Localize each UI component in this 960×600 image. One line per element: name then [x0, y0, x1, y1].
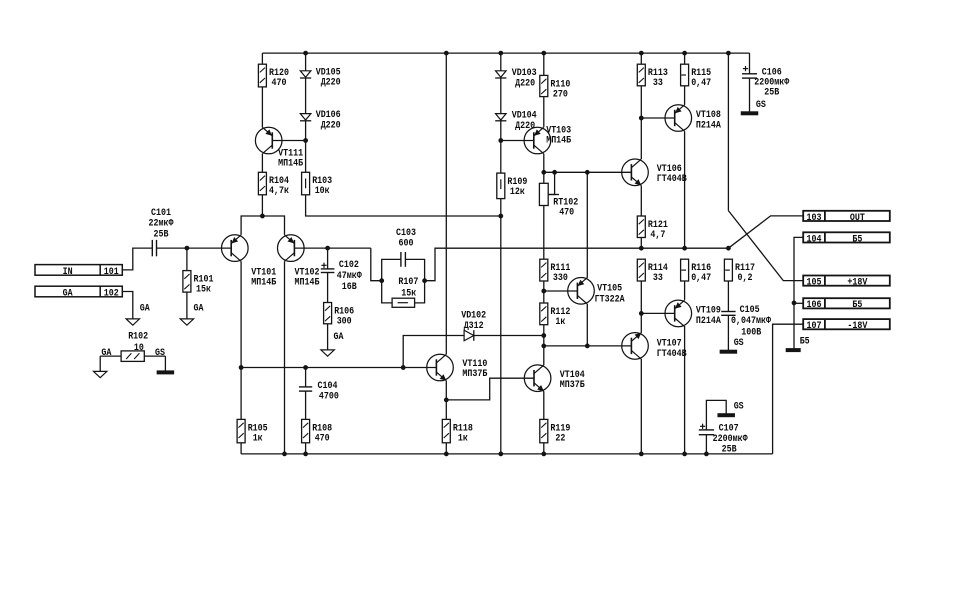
- resistor R105: [237, 419, 268, 444]
- node B: VD104 / VT103 base / R109 junction: [499, 139, 503, 143]
- wire: VT108 collector to output rail: [684, 131, 686, 248]
- terminal 102 GA: [35, 286, 122, 299]
- svg-text:470: 470: [272, 78, 287, 89]
- junction: R114 / VT109 base / VT107 emitter: [639, 312, 643, 316]
- wire: RT102 wiper tap: [549, 172, 559, 194]
- wire: VT101 collector to VT110 base node: [240, 261, 242, 367]
- junction: R109 line at rail: [499, 452, 503, 456]
- wire: terminal 104/106 net: [794, 237, 803, 348]
- junction: C104 top: [304, 366, 308, 370]
- junction: R110 at top rail: [542, 51, 546, 55]
- svg-text:МП14Б: МП14Б: [295, 278, 320, 289]
- resistor R109: [497, 173, 528, 199]
- wire: VT107 emitter riser: [640, 313, 642, 332]
- resistor R116: [681, 259, 712, 284]
- wire: R105 bottom to rail: [240, 443, 242, 454]
- wire: VT106 emitter to R121: [640, 186, 642, 216]
- svg-text:C107: C107: [719, 423, 739, 434]
- wire: R119 bottom to rail: [543, 443, 545, 454]
- svg-text:0,2: 0,2: [738, 273, 753, 284]
- junction: +18V bus at top rail: [727, 51, 731, 55]
- terminal 103 OUT: [803, 211, 890, 224]
- wire: VT111 base to diode node: [272, 140, 305, 142]
- junction: VT105 emitter at bias bus: [585, 170, 589, 174]
- svg-text:22: 22: [555, 433, 565, 444]
- wire: VT109 base wire: [641, 312, 674, 314]
- transistor VT108: [665, 105, 721, 132]
- svg-text:МП14Б: МП14Б: [278, 159, 303, 170]
- wire: VT105 collector down: [586, 304, 588, 346]
- resistor R119: [540, 419, 571, 444]
- svg-text:VT109: VT109: [696, 306, 721, 317]
- junction: C103/R107 right node: [423, 279, 427, 283]
- diode VD105: [300, 68, 341, 89]
- junction: R118 at rail: [444, 452, 448, 456]
- svg-text:IN: IN: [63, 267, 73, 278]
- svg-text:ГТ322А: ГТ322А: [595, 295, 625, 306]
- svg-text:Д220: Д220: [321, 78, 341, 89]
- wire: VT103 collector down: [543, 154, 545, 173]
- junction: VT109 collector at rail: [683, 452, 687, 456]
- svg-text:GA: GA: [140, 303, 150, 314]
- junction: VD102 branch at VT110 base wire: [401, 366, 405, 370]
- junction: R104 / emitters: [261, 214, 265, 218]
- wire: VT104 bottom to R119: [543, 391, 545, 419]
- wire: feedback node down to C103/R107 left: [371, 248, 382, 281]
- resistor R115: [681, 64, 712, 89]
- wire: R101 bottom to ground: [186, 292, 188, 319]
- ground GA (R102 left): [94, 371, 107, 377]
- svg-text:103: 103: [807, 213, 822, 224]
- wire: VD102 cathode to R112 node: [474, 335, 544, 337]
- svg-text:0,047мкФ: 0,047мкФ: [731, 316, 771, 327]
- svg-text:Д220: Д220: [321, 120, 341, 131]
- wire: VT102 base to feedback node: [294, 247, 370, 249]
- wire: diff-pair emitter bus: [241, 216, 284, 235]
- wire: VT101 collector node bus to VT110 base: [241, 367, 436, 369]
- svg-text:25В: 25В: [722, 444, 737, 455]
- wire: GA102 terminal to ground: [122, 292, 133, 319]
- capacitor C106: [742, 66, 789, 111]
- junction: VT103 collector / RT102: [542, 170, 546, 174]
- svg-text:C101: C101: [151, 208, 171, 219]
- wire: VD105 chain from rail: [305, 53, 307, 140]
- wire: R121 bottom to output rail: [640, 238, 642, 249]
- wire: R107 right leg: [415, 281, 425, 303]
- wire: C101 to VT101 base: [157, 247, 232, 249]
- wire: R107 left leg: [382, 281, 392, 303]
- svg-text:102: 102: [104, 288, 119, 299]
- junction: bus at top rail: [444, 51, 448, 55]
- wire: VT107 collector to bottom rail: [640, 359, 642, 454]
- junction: R119 at rail: [542, 452, 546, 456]
- wire: VD103 chain from rail: [500, 53, 502, 140]
- capacitor C102: [321, 260, 362, 293]
- svg-text:600: 600: [399, 238, 414, 249]
- svg-text:270: 270: [553, 89, 568, 100]
- svg-text:25В: 25В: [154, 230, 169, 241]
- transistor VT102: [278, 235, 320, 289]
- wire: input coupling run: [122, 248, 152, 270]
- svg-text:4,7: 4,7: [650, 230, 665, 241]
- resistor R103: [302, 172, 333, 197]
- wire: C106 bottom to ground: [749, 78, 751, 112]
- svg-text:Б5: Б5: [852, 234, 862, 245]
- wire: RT102 bottom to R111: [543, 206, 545, 260]
- svg-text:1к: 1к: [253, 433, 263, 444]
- svg-text:VD102: VD102: [461, 310, 486, 321]
- resistor R111: [540, 259, 571, 284]
- transistor VT106: [622, 159, 687, 186]
- terminal 101 IN: [35, 265, 122, 278]
- capacitor C103: [396, 228, 416, 267]
- terminal 106 Б5: [803, 298, 890, 311]
- svg-text:Д220: Д220: [515, 121, 535, 132]
- svg-text:МП37Б: МП37Б: [462, 369, 487, 380]
- terminal 105 +18V: [803, 276, 890, 289]
- resistor R112: [540, 303, 571, 328]
- svg-text:GA: GA: [194, 303, 204, 314]
- wire: R120 top to rail: [261, 53, 263, 64]
- capacitor C101: [149, 208, 174, 256]
- wire: R112 top: [543, 291, 545, 303]
- wire: +18V diagonal to terminal 105: [728, 211, 803, 281]
- svg-text:ГТ404В: ГТ404В: [657, 174, 687, 185]
- wire: C103 right leg: [405, 259, 424, 280]
- resistor R108: [302, 419, 333, 444]
- svg-text:C105: C105: [740, 305, 760, 316]
- svg-text:C104: C104: [318, 381, 338, 392]
- ground GS (R102 right): [157, 371, 174, 374]
- svg-text:ГТ404В: ГТ404В: [657, 349, 687, 360]
- resistor R101: [183, 271, 214, 296]
- wire: C107 top to ground bracket: [706, 400, 726, 430]
- transistor VT107: [622, 333, 687, 360]
- svg-text:R107: R107: [398, 277, 418, 288]
- svg-text:GA: GA: [334, 332, 344, 343]
- node A: VT111 base / VD106 / R103 junction: [304, 139, 308, 143]
- junction: R115 at top rail: [683, 51, 687, 55]
- svg-text:C102: C102: [339, 260, 359, 271]
- wire: VD102 anode branch: [403, 336, 464, 368]
- diode VD102: [461, 310, 486, 340]
- svg-text:105: 105: [807, 278, 822, 289]
- junction: VD103 at top rail: [499, 51, 503, 55]
- junction: VT104 collector node: [542, 344, 546, 348]
- svg-text:470: 470: [315, 433, 330, 444]
- svg-text:C103: C103: [396, 228, 416, 239]
- capacitor C105: [721, 305, 771, 349]
- ground GA (R106): [321, 332, 344, 356]
- svg-text:15к: 15к: [401, 288, 416, 299]
- svg-text:GS: GS: [756, 100, 766, 111]
- svg-text:1к: 1к: [555, 317, 565, 328]
- resistor R106: [324, 303, 355, 328]
- wire: terminal 106 stub: [794, 302, 803, 304]
- svg-text:101: 101: [104, 267, 119, 278]
- wire: terminal 107 to bottom rail: [773, 324, 804, 454]
- ground GS (C106): [741, 112, 758, 115]
- junction: VD105 at top rail: [304, 51, 308, 55]
- transistor VT103: [524, 126, 571, 154]
- svg-text:OUT: OUT: [850, 213, 865, 224]
- svg-text:1к: 1к: [458, 433, 468, 444]
- transistor VT111: [255, 127, 303, 169]
- svg-text:0,47: 0,47: [691, 273, 711, 284]
- wire: VT108 base wire: [641, 117, 674, 119]
- terminal 107 -18V: [803, 319, 890, 332]
- junction: 104/106 net: [792, 301, 796, 305]
- svg-text:R102: R102: [128, 332, 148, 343]
- svg-text:МП14Б: МП14Б: [251, 278, 276, 289]
- junction: R117 at output rail: [727, 246, 731, 250]
- svg-text:15к: 15к: [196, 285, 211, 296]
- wire: R112 bottom to VD102 node: [543, 325, 545, 336]
- wire: R106 to ground: [327, 324, 329, 350]
- junction: VT108 collector / R116 at output rail: [683, 246, 687, 250]
- wire: VT110 emitter to VT104 base: [446, 378, 534, 400]
- wire: R108 bottom to rail: [305, 443, 307, 454]
- wire: C104 top lead: [305, 368, 307, 387]
- resistor R107: [392, 277, 418, 307]
- wire: +18V top rail: [262, 52, 749, 54]
- svg-text:300: 300: [337, 316, 352, 327]
- wire: R103 bottom to R109 bottom: [306, 195, 501, 216]
- diode VD103: [495, 68, 537, 89]
- wire: C102 top lead: [327, 248, 329, 269]
- svg-text:VT108: VT108: [696, 110, 721, 121]
- svg-text:-18V: -18V: [847, 321, 867, 332]
- wire: R118 top: [445, 400, 447, 420]
- svg-text:GA: GA: [63, 288, 73, 299]
- wire: R110 top to rail: [543, 53, 545, 75]
- wire: R101 top: [186, 248, 188, 271]
- svg-text:GA: GA: [101, 348, 111, 359]
- junction: R113 / VT106 collector / VT108 base: [639, 116, 643, 120]
- wire: C106 from top rail: [749, 53, 751, 74]
- wire: VT108 emitter to R115: [684, 86, 686, 105]
- svg-text:GS: GS: [734, 338, 744, 349]
- trimmer resistor RT102: [539, 183, 578, 218]
- svg-text:П214А: П214А: [696, 316, 721, 327]
- wire: C103 left leg: [382, 259, 401, 280]
- junction: C103/R107 left node: [380, 279, 384, 283]
- wire: diode node to VT103 base: [501, 140, 534, 142]
- wire: VT102 collector to bottom rail: [284, 261, 286, 454]
- svg-text:16В: 16В: [342, 282, 357, 293]
- svg-text:107: 107: [807, 321, 822, 332]
- junction: VT110 emitter / R118: [444, 398, 448, 402]
- resistor R121: [637, 216, 668, 241]
- wire: R109 bottom to bottom rail: [500, 199, 502, 454]
- svg-text:22мкФ: 22мкФ: [149, 219, 174, 230]
- svg-text:МП14Б: МП14Б: [546, 136, 571, 147]
- capacitor C107: [699, 423, 748, 455]
- wire: VT105 emitter riser: [586, 172, 588, 277]
- resistor R113: [637, 64, 668, 89]
- wire: VT111 collector to R104: [261, 154, 263, 173]
- wire: R105 top: [240, 368, 242, 420]
- junction: R108 at rail: [304, 452, 308, 456]
- ground GS (C105): [720, 350, 737, 353]
- svg-text:12к: 12к: [510, 187, 525, 198]
- wire: +18V bus to VT110 collector: [445, 53, 447, 354]
- wire: R114 bottom to VT109 base node: [640, 281, 642, 313]
- svg-text:104: 104: [807, 234, 822, 245]
- wire: +18V supply bus: [727, 53, 729, 211]
- wire: C102 to R106: [327, 273, 329, 303]
- wire: R115 top to rail: [684, 53, 686, 64]
- diode VD106: [300, 110, 341, 131]
- resistor R120: [258, 64, 289, 89]
- svg-text:Д220: Д220: [515, 78, 535, 89]
- wire: VT109 collector to bottom rail: [684, 326, 686, 454]
- svg-text:МП37Б: МП37Б: [560, 380, 585, 391]
- transistor VT104: [524, 365, 585, 392]
- wire: R117 bottom to C105: [727, 281, 729, 312]
- wire: R113 top to rail: [640, 53, 642, 64]
- junction: R103-R109 node: [499, 214, 503, 218]
- wire: R107 node to output rail riser: [425, 248, 729, 281]
- ground bar Б5: [786, 336, 810, 351]
- transistor VT109: [665, 300, 721, 327]
- ground GA (input 102): [126, 303, 150, 325]
- wire: VT103 emitter to R110: [543, 97, 545, 128]
- capacitor C104: [299, 381, 339, 403]
- resistor R104: [258, 172, 289, 197]
- junction: R113 at top rail: [639, 51, 643, 55]
- wire: R116 bottom to VT109 emitter: [684, 281, 686, 300]
- junction: R111 / R112 / VT105 base: [542, 289, 546, 293]
- wire: VT110 emitter down: [445, 381, 447, 400]
- junction: VD102 cathode node: [542, 334, 546, 338]
- svg-text:330: 330: [553, 273, 568, 284]
- resistor R118: [442, 419, 473, 444]
- resistor R117: [724, 259, 755, 284]
- svg-text:4,7к: 4,7к: [269, 186, 289, 197]
- junction: C102 top: [326, 246, 330, 250]
- junction: R101 / C101 node: [185, 246, 189, 250]
- resistor R102: [100, 332, 165, 372]
- svg-text:47мкФ: 47мкФ: [337, 271, 362, 282]
- resistor R114: [637, 259, 668, 284]
- svg-text:4700: 4700: [319, 392, 339, 403]
- svg-text:Б5: Б5: [852, 300, 862, 311]
- svg-text:VT105: VT105: [597, 283, 622, 294]
- junction: C107 at rail: [705, 452, 709, 456]
- svg-text:+18V: +18V: [847, 278, 867, 289]
- ground GA (R101): [180, 303, 203, 325]
- ground GS (C107): [718, 401, 744, 416]
- wire: VD102 node down: [543, 336, 545, 346]
- diode VD104: [495, 111, 537, 132]
- wire: R104 to diff-pair emitters: [261, 195, 263, 216]
- junction: VT107 collector at rail: [639, 452, 643, 456]
- wire: R111 bottom to VT105 base: [544, 281, 578, 291]
- terminal 104 Б5: [803, 232, 890, 245]
- svg-text:33: 33: [653, 273, 663, 284]
- wire: C104 to R108: [305, 391, 307, 419]
- wire: R118 bottom to rail: [445, 443, 447, 454]
- wire: C107 from bottom rail: [705, 435, 707, 454]
- svg-text:106: 106: [807, 300, 822, 311]
- wire: R109 top: [500, 141, 502, 174]
- junction: VT105 collector at VT107 base wire: [585, 344, 589, 348]
- svg-text:П214А: П214А: [696, 121, 721, 132]
- wire: VT104 top lead: [543, 346, 545, 365]
- svg-text:10: 10: [134, 343, 144, 354]
- wire: VT111 emitter to R120: [261, 87, 263, 128]
- transistor VT105: [568, 278, 625, 306]
- junction: VT101 collector / R105: [239, 366, 243, 370]
- wire: RT102 top: [543, 172, 545, 183]
- wire: C105 bottom to ground: [727, 315, 729, 350]
- resistor R110: [540, 75, 571, 100]
- junction: RT102 tap: [553, 170, 557, 174]
- svg-text:33: 33: [653, 78, 663, 89]
- svg-text:2200мкФ: 2200мкФ: [713, 434, 748, 445]
- svg-text:Д312: Д312: [464, 321, 484, 332]
- wire: OUT diagonal from output rail: [728, 216, 803, 248]
- svg-text:100В: 100В: [741, 327, 761, 338]
- wire: -18V bottom rail: [241, 453, 773, 455]
- transistor VT110: [427, 354, 488, 381]
- junction: R121/R114 at output rail: [639, 246, 643, 250]
- svg-text:25В: 25В: [764, 87, 779, 98]
- wire: VT104 collector node to VT107 base: [544, 345, 632, 347]
- svg-text:10к: 10к: [315, 186, 330, 197]
- svg-text:0,47: 0,47: [691, 78, 711, 89]
- svg-text:GS: GS: [155, 348, 165, 359]
- svg-text:GS: GS: [734, 401, 744, 412]
- wire: VT106 collector riser: [640, 118, 642, 159]
- wire: R113 bottom: [640, 86, 642, 118]
- wire: diode node to R103: [305, 141, 307, 173]
- junction: VT102 collector at rail: [283, 452, 287, 456]
- wire: bias chain bus VT103-VT106: [544, 171, 632, 173]
- svg-text:470: 470: [559, 207, 574, 218]
- svg-text:Б5: Б5: [800, 336, 810, 347]
- transistor VT101: [222, 235, 277, 289]
